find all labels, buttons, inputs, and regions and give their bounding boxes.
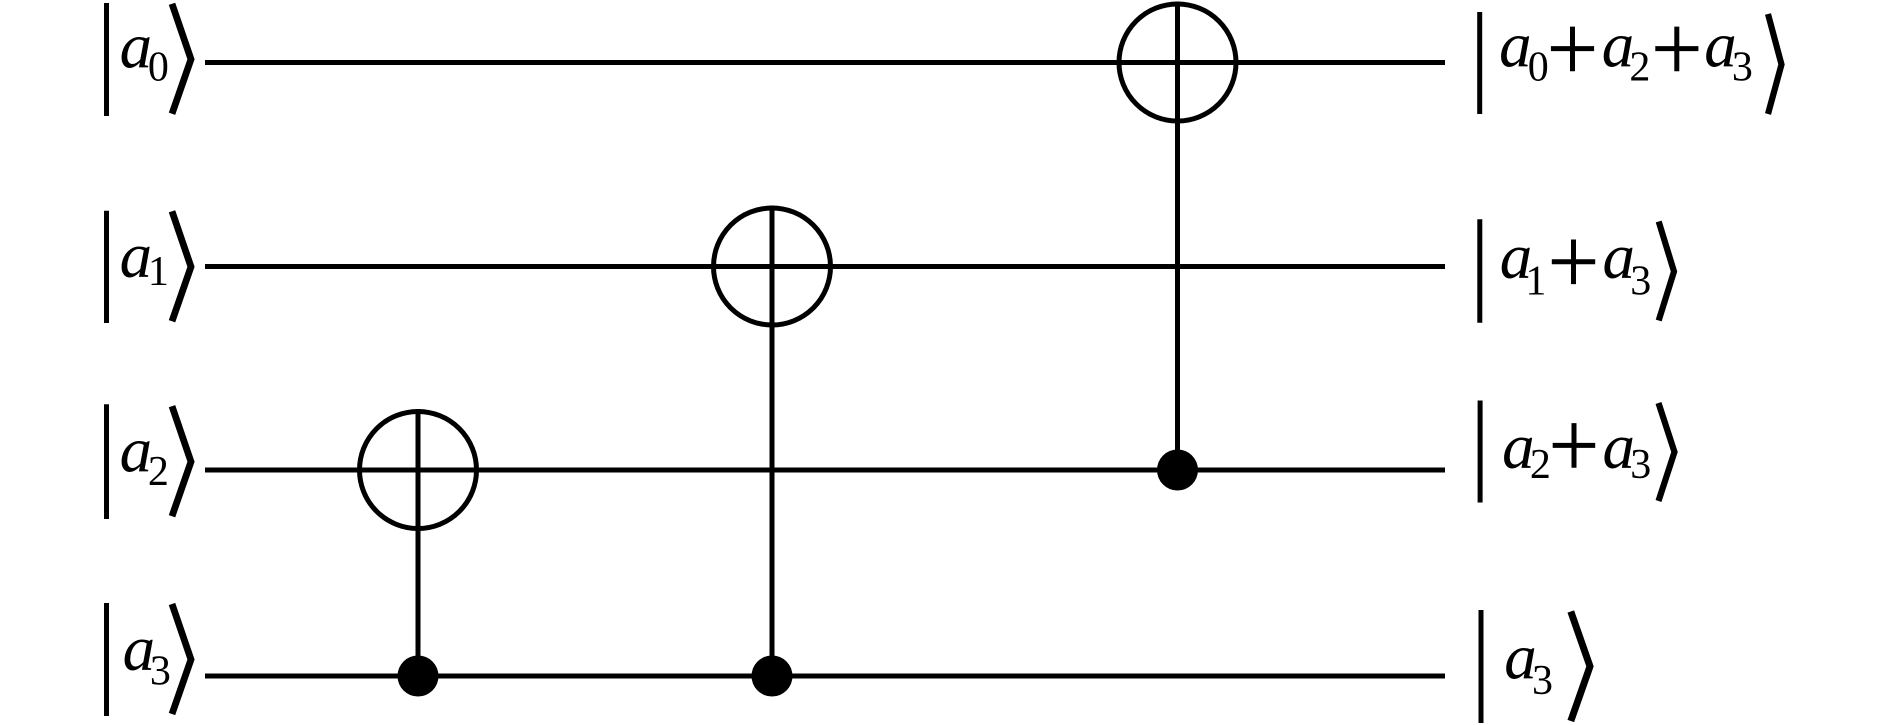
control dot on q3 [752,656,793,697]
svg-text:a: a [1499,10,1532,82]
connector wire [770,206,775,677]
target circle on q1 [714,208,831,325]
wire q0 [205,60,1445,65]
svg-text:2: 2 [1530,442,1551,488]
ket label |a2+a3> right [1480,401,1674,503]
svg-text:1: 1 [1525,259,1546,305]
ket label |a2> left [107,404,192,519]
svg-text:3: 3 [1532,658,1553,704]
svg-text:3: 3 [1630,259,1651,305]
svg-text:3: 3 [1630,442,1651,488]
ket label |a0+a2+a3> right [1480,10,1782,115]
wire q2 [205,468,1445,473]
target circle on q2 [360,412,477,529]
CNOT gate 3: control q2, target q0 [1119,2,1236,491]
control dot on q2 [1157,450,1198,491]
wire q1 [205,264,1445,269]
ket label |a3> left [107,603,192,716]
svg-text:3: 3 [150,649,171,695]
connector wire [1175,2,1180,471]
svg-text:0: 0 [148,45,169,91]
ket label |a0> left [107,3,192,116]
control dot on q3 [398,656,439,697]
ket label |a3> right [1481,610,1590,723]
svg-text:2: 2 [1629,45,1650,91]
svg-text:2: 2 [148,449,169,495]
target circle on q0 [1119,4,1236,121]
ket label |a1+a3> right [1480,219,1674,322]
svg-text:0: 0 [1528,45,1549,91]
svg-text:3: 3 [1732,45,1753,91]
CNOT gate 2: control q3, target q1 [714,206,831,697]
connector wire [416,409,421,676]
svg-text:1: 1 [148,249,169,295]
wire q3 [205,674,1445,679]
CNOT gate 1: control q3, target q2 [360,409,477,697]
ket label |a1> left [107,211,192,323]
